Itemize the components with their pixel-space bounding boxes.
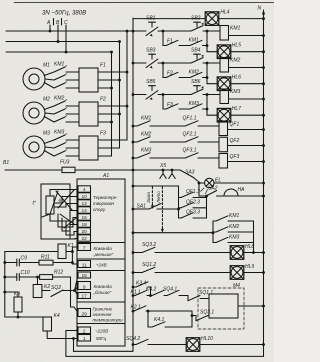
breaker row QF3 — [132, 157, 134, 159]
svg-text:SQ2: SQ2 — [51, 285, 61, 291]
contact F3 — [166, 104, 178, 109]
coil KM2 — [220, 58, 229, 73]
svg-text:„більше“: „більше“ — [93, 290, 112, 295]
svg-text:QF3.3: QF3.3 — [186, 210, 200, 216]
svg-text:~220В: ~220В — [95, 329, 108, 334]
svg-text:F2: F2 — [167, 71, 173, 77]
contact SQ4.1 — [167, 290, 179, 295]
svg-text:K4.1: K4.1 — [154, 317, 165, 323]
svg-text:KM1: KM1 — [229, 213, 240, 219]
holding branch — [162, 31, 164, 46]
contact QF1.3 — [179, 197, 182, 199]
wire alarm feed — [133, 169, 180, 171]
svg-text:творювач: творювач — [93, 201, 115, 206]
SA1 linkage dashed — [151, 187, 153, 207]
contact F2 — [166, 72, 178, 77]
control ladder left bus — [132, 18, 134, 351]
svg-text:Граничне: Граничне — [93, 307, 113, 312]
fuse block F3 — [79, 136, 98, 160]
svg-text:50Гц: 50Гц — [96, 336, 106, 341]
pushbutton SB3 — [149, 53, 156, 55]
svg-text:KM3: KM3 — [54, 130, 65, 136]
svg-text:HL6: HL6 — [232, 74, 241, 80]
fuse block F1 — [79, 68, 98, 92]
wire bus phase A — [6, 30, 133, 32]
node C — [65, 51, 67, 53]
svg-text:F3: F3 — [167, 102, 173, 108]
svg-text:12: 12 — [82, 201, 88, 207]
capacitor C9 — [5, 262, 17, 264]
svg-text:SQ3.2: SQ3.2 — [142, 242, 156, 248]
svg-text:KM2: KM2 — [54, 96, 65, 102]
svg-text:KM1: KM1 — [54, 62, 65, 68]
svg-text:KM2: KM2 — [230, 58, 241, 64]
pushbutton SB1 — [149, 21, 156, 23]
svg-text:SB5: SB5 — [146, 79, 156, 85]
rung wire — [133, 94, 146, 96]
wire FU3 to bus — [75, 169, 133, 171]
wire SA1 pole2 — [132, 232, 134, 234]
wire control feed — [5, 169, 62, 171]
svg-text:M2: M2 — [43, 97, 50, 103]
contact KM2 — [137, 137, 150, 142]
svg-text:+24В: +24В — [96, 263, 107, 268]
svg-text:X5: X5 — [159, 163, 166, 169]
node bus feed — [132, 169, 134, 171]
lamp HL6 — [207, 78, 217, 84]
svg-text:t°: t° — [33, 201, 36, 207]
switch SQ2 — [42, 290, 50, 292]
svg-text:KM2: KM2 — [141, 132, 152, 138]
svg-text:B1: B1 — [3, 160, 9, 166]
row K3.4 — [132, 286, 134, 288]
motor M2 — [23, 102, 45, 124]
neutral bus N — [263, 10, 265, 356]
wire left bus bottom — [4, 252, 6, 318]
svg-text:4: 4 — [83, 187, 86, 193]
svg-text:K2.1: K2.1 — [131, 305, 142, 311]
row K1.1 — [132, 295, 134, 297]
contact KM3 — [137, 153, 150, 158]
wire F3 outputs — [98, 139, 127, 141]
terminal strip 4-22 — [78, 186, 91, 192]
coil KM1 — [220, 26, 229, 41]
svg-text:KM1: KM1 — [189, 38, 200, 44]
wire bottom K row — [5, 316, 47, 318]
node phase C drop — [111, 51, 113, 53]
wire phase C vertical drop — [111, 52, 113, 156]
wire K1 rail — [72, 252, 78, 265]
switch SA2 — [199, 183, 206, 196]
section dividers — [77, 242, 125, 244]
svg-text:17: 17 — [82, 294, 88, 300]
wire actuator to N — [238, 305, 264, 307]
switch SA3 — [180, 170, 194, 178]
svg-text:KM3: KM3 — [230, 89, 241, 95]
svg-text:7: 7 — [83, 246, 86, 252]
node C9 row — [4, 262, 6, 264]
signal row HL8 — [132, 252, 134, 254]
svg-text:KM1: KM1 — [230, 26, 241, 32]
svg-text:HL10: HL10 — [201, 336, 213, 342]
motor M3 — [23, 136, 45, 158]
breaker row QF2 — [132, 141, 134, 143]
svg-text:F1: F1 — [100, 63, 106, 69]
svg-text:29: 29 — [82, 312, 88, 318]
svg-text:R11: R11 — [41, 255, 50, 261]
fork to terminals 15 9 17 — [75, 276, 79, 291]
label Лето — [156, 191, 161, 204]
svg-text:HL4: HL4 — [220, 10, 229, 16]
svg-text:QF1: QF1 — [230, 122, 240, 128]
resistor R12 — [19, 276, 39, 278]
sensor wiring to A1 terminals — [50, 190, 78, 197]
svg-text:SB6: SB6 — [191, 79, 201, 85]
svg-text:SQ1.1: SQ1.1 — [199, 290, 213, 296]
node phase B drop — [119, 41, 121, 43]
rung wire — [133, 30, 146, 32]
svg-text:Команда: Команда — [94, 246, 113, 251]
switch SA1 — [137, 204, 147, 210]
node B — [57, 41, 59, 43]
node C10 row — [4, 276, 6, 278]
wire A1 term1 to bus — [74, 339, 134, 352]
contact K4.1 — [148, 311, 152, 327]
lamp HL4 — [205, 12, 219, 26]
svg-text:значення: значення — [92, 312, 113, 317]
svg-text:K1.1: K1.1 — [131, 290, 142, 296]
lamp HL7 — [207, 109, 217, 115]
wire phase A vertical drop — [126, 31, 128, 140]
node phase A drop — [126, 30, 128, 32]
contact F1 — [166, 40, 178, 45]
contactor contacts KM2 — [44, 106, 54, 110]
contact QF3.3 — [179, 217, 182, 219]
svg-text:HL9: HL9 — [245, 264, 254, 270]
wire F2 outputs — [98, 105, 127, 107]
svg-text:HA: HA — [238, 187, 246, 193]
actuator M4 — [198, 288, 244, 329]
contactor contacts KM1 — [44, 72, 54, 76]
svg-text:опору: опору — [93, 207, 106, 212]
lamp HL9 — [230, 266, 244, 280]
wire drop from label A — [49, 25, 51, 31]
relay coil K3 — [4, 291, 6, 293]
svg-text:KM3: KM3 — [189, 101, 200, 107]
contact KM2 — [213, 231, 216, 233]
resistor R11 — [19, 262, 39, 264]
contact QF2.1 — [185, 137, 198, 142]
svg-text:SQ1.2: SQ1.2 — [142, 262, 156, 268]
svg-text:Термопере-: Термопере- — [93, 195, 118, 200]
svg-text:F3: F3 — [100, 131, 106, 137]
svg-text:F1: F1 — [167, 39, 173, 45]
terminal X5 — [159, 163, 166, 169]
motor M1 — [23, 68, 45, 90]
buzzer HA — [224, 189, 238, 196]
svg-text:14: 14 — [82, 208, 88, 214]
svg-text:KM3: KM3 — [141, 148, 152, 154]
svg-text:F2: F2 — [100, 97, 106, 103]
wire drop from label B — [57, 25, 59, 42]
label B1 — [3, 160, 9, 166]
node A — [49, 30, 51, 32]
svg-text:SQ4.2: SQ4.2 — [126, 336, 140, 342]
svg-text:QF2.1: QF2.1 — [183, 132, 197, 138]
svg-text:1: 1 — [83, 336, 86, 342]
wire lamp feed — [133, 18, 205, 20]
signal row HL9 — [132, 272, 134, 274]
coil QF2 — [219, 137, 228, 152]
phase labels A B C — [46, 20, 68, 26]
svg-text:HL8: HL8 — [245, 244, 254, 250]
lamp HL5 — [207, 46, 217, 52]
label thermal converter — [92, 195, 124, 341]
svg-text:Зима: Зима — [146, 192, 151, 203]
label 3N 50Hz 380V — [42, 10, 86, 17]
contact KM1 — [213, 220, 216, 222]
pushbutton SB5 — [149, 85, 156, 87]
svg-text:N: N — [258, 6, 262, 12]
svg-text:HL7: HL7 — [232, 106, 241, 112]
contact KM2 aux — [190, 72, 202, 77]
svg-text:3N ~50Гц, 380В: 3N ~50Гц, 380В — [42, 10, 86, 17]
wire bracket feed — [132, 185, 134, 187]
limit switch SQ3.1 — [192, 311, 196, 316]
svg-text:15: 15 — [82, 273, 88, 279]
pushbutton SB4 — [194, 53, 201, 55]
contact QF2.3 — [179, 207, 182, 209]
svg-text:KM2: KM2 — [189, 70, 200, 76]
wire A1 term2 to bottom — [66, 331, 264, 357]
relay coil K4 — [43, 317, 52, 331]
lamp HL8 — [230, 246, 244, 260]
svg-text:QF2.3: QF2.3 — [186, 199, 200, 205]
svg-text:KM2: KM2 — [229, 224, 240, 230]
holding branch — [162, 63, 164, 78]
svg-text:K3: K3 — [14, 292, 20, 298]
svg-text:2: 2 — [83, 329, 86, 335]
svg-text:QF3: QF3 — [230, 154, 240, 160]
relay coil K2 — [33, 285, 42, 298]
svg-text:9: 9 — [83, 285, 86, 291]
contact QF3.1 — [185, 153, 198, 158]
svg-text:QF1.1: QF1.1 — [183, 116, 197, 122]
contact QF1.1 — [185, 121, 198, 126]
svg-text:FU3: FU3 — [60, 160, 70, 166]
svg-text:SQ4.1: SQ4.1 — [163, 287, 177, 293]
signal row HL10 — [132, 344, 134, 346]
coil KM3 — [220, 89, 229, 104]
wire rail to command terminals — [71, 277, 75, 307]
contactor contacts KM3 — [44, 140, 54, 144]
svg-text:K4.2: K4.2 — [146, 287, 157, 293]
limit switch SQ1.1 — [185, 295, 188, 297]
svg-text:SB4: SB4 — [191, 48, 201, 54]
svg-text:„меньше“: „меньше“ — [93, 252, 114, 257]
svg-text:M3: M3 — [43, 131, 50, 137]
svg-text:SB3: SB3 — [146, 48, 156, 54]
top border line — [14, 2, 274, 4]
relay coil K1 — [5, 251, 58, 253]
capacitor C10 — [5, 276, 17, 278]
controller block A1 — [77, 179, 125, 346]
svg-text:HL5: HL5 — [232, 42, 241, 48]
svg-text:SA2: SA2 — [208, 186, 218, 192]
svg-text:температури: температури — [93, 318, 124, 323]
row K2.1 — [132, 310, 134, 312]
svg-text:M4: M4 — [233, 283, 240, 289]
holding branch — [162, 95, 164, 110]
svg-text:QF1.3: QF1.3 — [186, 189, 200, 195]
svg-text:Лето: Лето — [156, 191, 161, 204]
svg-text:K4: K4 — [54, 313, 60, 319]
svg-text:Команда: Команда — [94, 284, 113, 289]
RTD thermistor — [46, 196, 54, 214]
contact KM1 aux — [190, 40, 202, 45]
fuse FU3 — [62, 167, 75, 172]
svg-text:16: 16 — [82, 215, 88, 221]
wire F1 outputs — [98, 71, 127, 73]
svg-text:M1: M1 — [43, 63, 50, 69]
svg-text:SB1: SB1 — [146, 16, 156, 22]
label Зима — [146, 192, 151, 203]
svg-text:K3.4: K3.4 — [136, 281, 147, 287]
svg-text:KM3: KM3 — [229, 234, 240, 240]
svg-text:10: 10 — [82, 194, 88, 200]
svg-text:18: 18 — [82, 222, 88, 228]
fuse block F2 — [79, 102, 98, 126]
svg-text:A1: A1 — [102, 173, 109, 179]
svg-text:C9: C9 — [21, 256, 28, 262]
svg-text:C10: C10 — [21, 270, 30, 276]
svg-text:SB2: SB2 — [191, 16, 201, 22]
wire bus phase B — [6, 41, 120, 43]
coil QF1 — [219, 121, 228, 136]
wire bus phase C — [6, 51, 112, 53]
sensor enclosure B1 — [41, 184, 70, 239]
contact KM1 — [137, 121, 150, 126]
wire drop from label C — [65, 25, 67, 52]
svg-text:20: 20 — [82, 229, 88, 235]
svg-text:KM1: KM1 — [141, 116, 152, 122]
pushbutton SB2 — [194, 21, 201, 23]
svg-text:K2: K2 — [44, 284, 50, 290]
svg-text:SA3: SA3 — [185, 170, 195, 176]
lamp EL — [200, 182, 205, 184]
contact KM3 aux — [190, 104, 202, 109]
lamp HL10 — [186, 338, 200, 352]
svg-text:R12: R12 — [54, 270, 63, 276]
KM interlock bracket — [212, 221, 214, 243]
svg-text:QF3.1: QF3.1 — [183, 148, 197, 154]
pushbutton SB6 — [194, 85, 201, 87]
contact KM3 — [213, 242, 216, 244]
contact K4.2 — [152, 290, 164, 295]
svg-text:22: 22 — [82, 236, 88, 242]
svg-text:QF2: QF2 — [230, 138, 240, 144]
svg-text:11: 11 — [82, 263, 87, 269]
terminals 7-1 — [78, 244, 91, 251]
svg-text:SQ3.1: SQ3.1 — [200, 310, 214, 316]
wire to terminal 29 — [74, 307, 78, 313]
coil QF3 — [219, 154, 228, 169]
wire phase B vertical drop — [119, 42, 121, 149]
breaker row QF1 — [132, 125, 134, 127]
rung wire — [133, 62, 146, 64]
